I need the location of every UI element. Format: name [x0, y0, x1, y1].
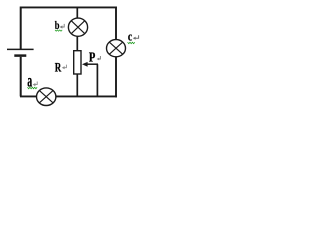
line-break mark after P	[97, 56, 101, 60]
wire top	[20, 6, 117, 8]
wire lamp b to resistor	[76, 36, 78, 51]
line-break mark after c	[133, 35, 139, 40]
lamp a	[37, 88, 56, 106]
battery B1 long plate	[7, 48, 34, 50]
wire right rail lower	[115, 57, 117, 98]
battery B1 short plate	[14, 54, 26, 57]
resistor R (rheostat body)	[74, 51, 81, 74]
wire bottom left	[20, 95, 37, 97]
wire wiper branch down	[96, 64, 98, 96]
grammar squiggle under b	[55, 30, 62, 31]
grammar squiggle under a	[28, 87, 38, 88]
svg-text:R: R	[55, 61, 62, 75]
wire middle stub top	[76, 7, 78, 18]
line-break mark after R	[62, 65, 67, 70]
grammar squiggle under c	[128, 42, 135, 43]
wire resistor to bottom	[76, 75, 78, 97]
line-break mark after b	[60, 24, 65, 29]
svg-text:P: P	[89, 49, 96, 65]
line-break mark after a	[33, 82, 38, 87]
wire bottom right	[56, 95, 117, 97]
lamp c	[107, 40, 126, 57]
wiper arrow of rheostat P	[82, 62, 98, 67]
wire left rail upper	[20, 7, 22, 50]
wire right rail upper	[115, 7, 117, 40]
wire left rail lower	[20, 57, 22, 97]
lamp b	[68, 18, 87, 36]
